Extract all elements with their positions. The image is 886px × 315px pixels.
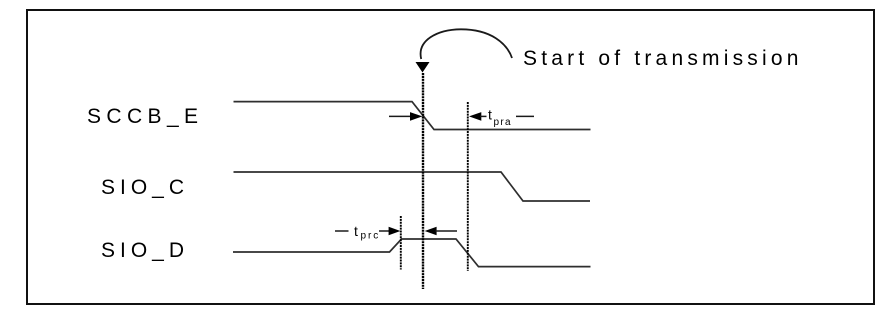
curved annotation arrow: [421, 29, 512, 59]
svg-text:SIO_C: SIO_C: [101, 176, 189, 199]
svg-text:t: t: [354, 223, 358, 239]
svg-text:SCCB_E: SCCB_E: [87, 105, 203, 128]
svg-text:t: t: [488, 107, 492, 123]
svg-text:Start of transmission: Start of transmission: [523, 47, 803, 70]
t_pra left-side arrow (points right at center line): [389, 115, 411, 117]
wire SCCB_E waveform: [234, 102, 591, 130]
t_prc right arrow (points left at center line): [425, 227, 437, 236]
t_prc leading dash: [335, 230, 349, 232]
svg-text:pra: pra: [494, 117, 512, 128]
svg-text:prc: prc: [361, 231, 381, 242]
node start-of-transmission dotted reference line: [422, 73, 424, 289]
node t_prc left dotted reference line: [400, 216, 402, 270]
node t_pra right dotted reference line: [467, 102, 469, 271]
wire SIO_D waveform: [233, 239, 591, 267]
t_pra right-side arrow (points left at right dotted line): [469, 112, 481, 121]
t_prc left arrow (points right at left dotted line): [379, 230, 390, 232]
wire SIO_C waveform: [234, 172, 591, 201]
t_pra trailing dash: [516, 115, 534, 117]
svg-text:SIO_D: SIO_D: [101, 239, 189, 262]
